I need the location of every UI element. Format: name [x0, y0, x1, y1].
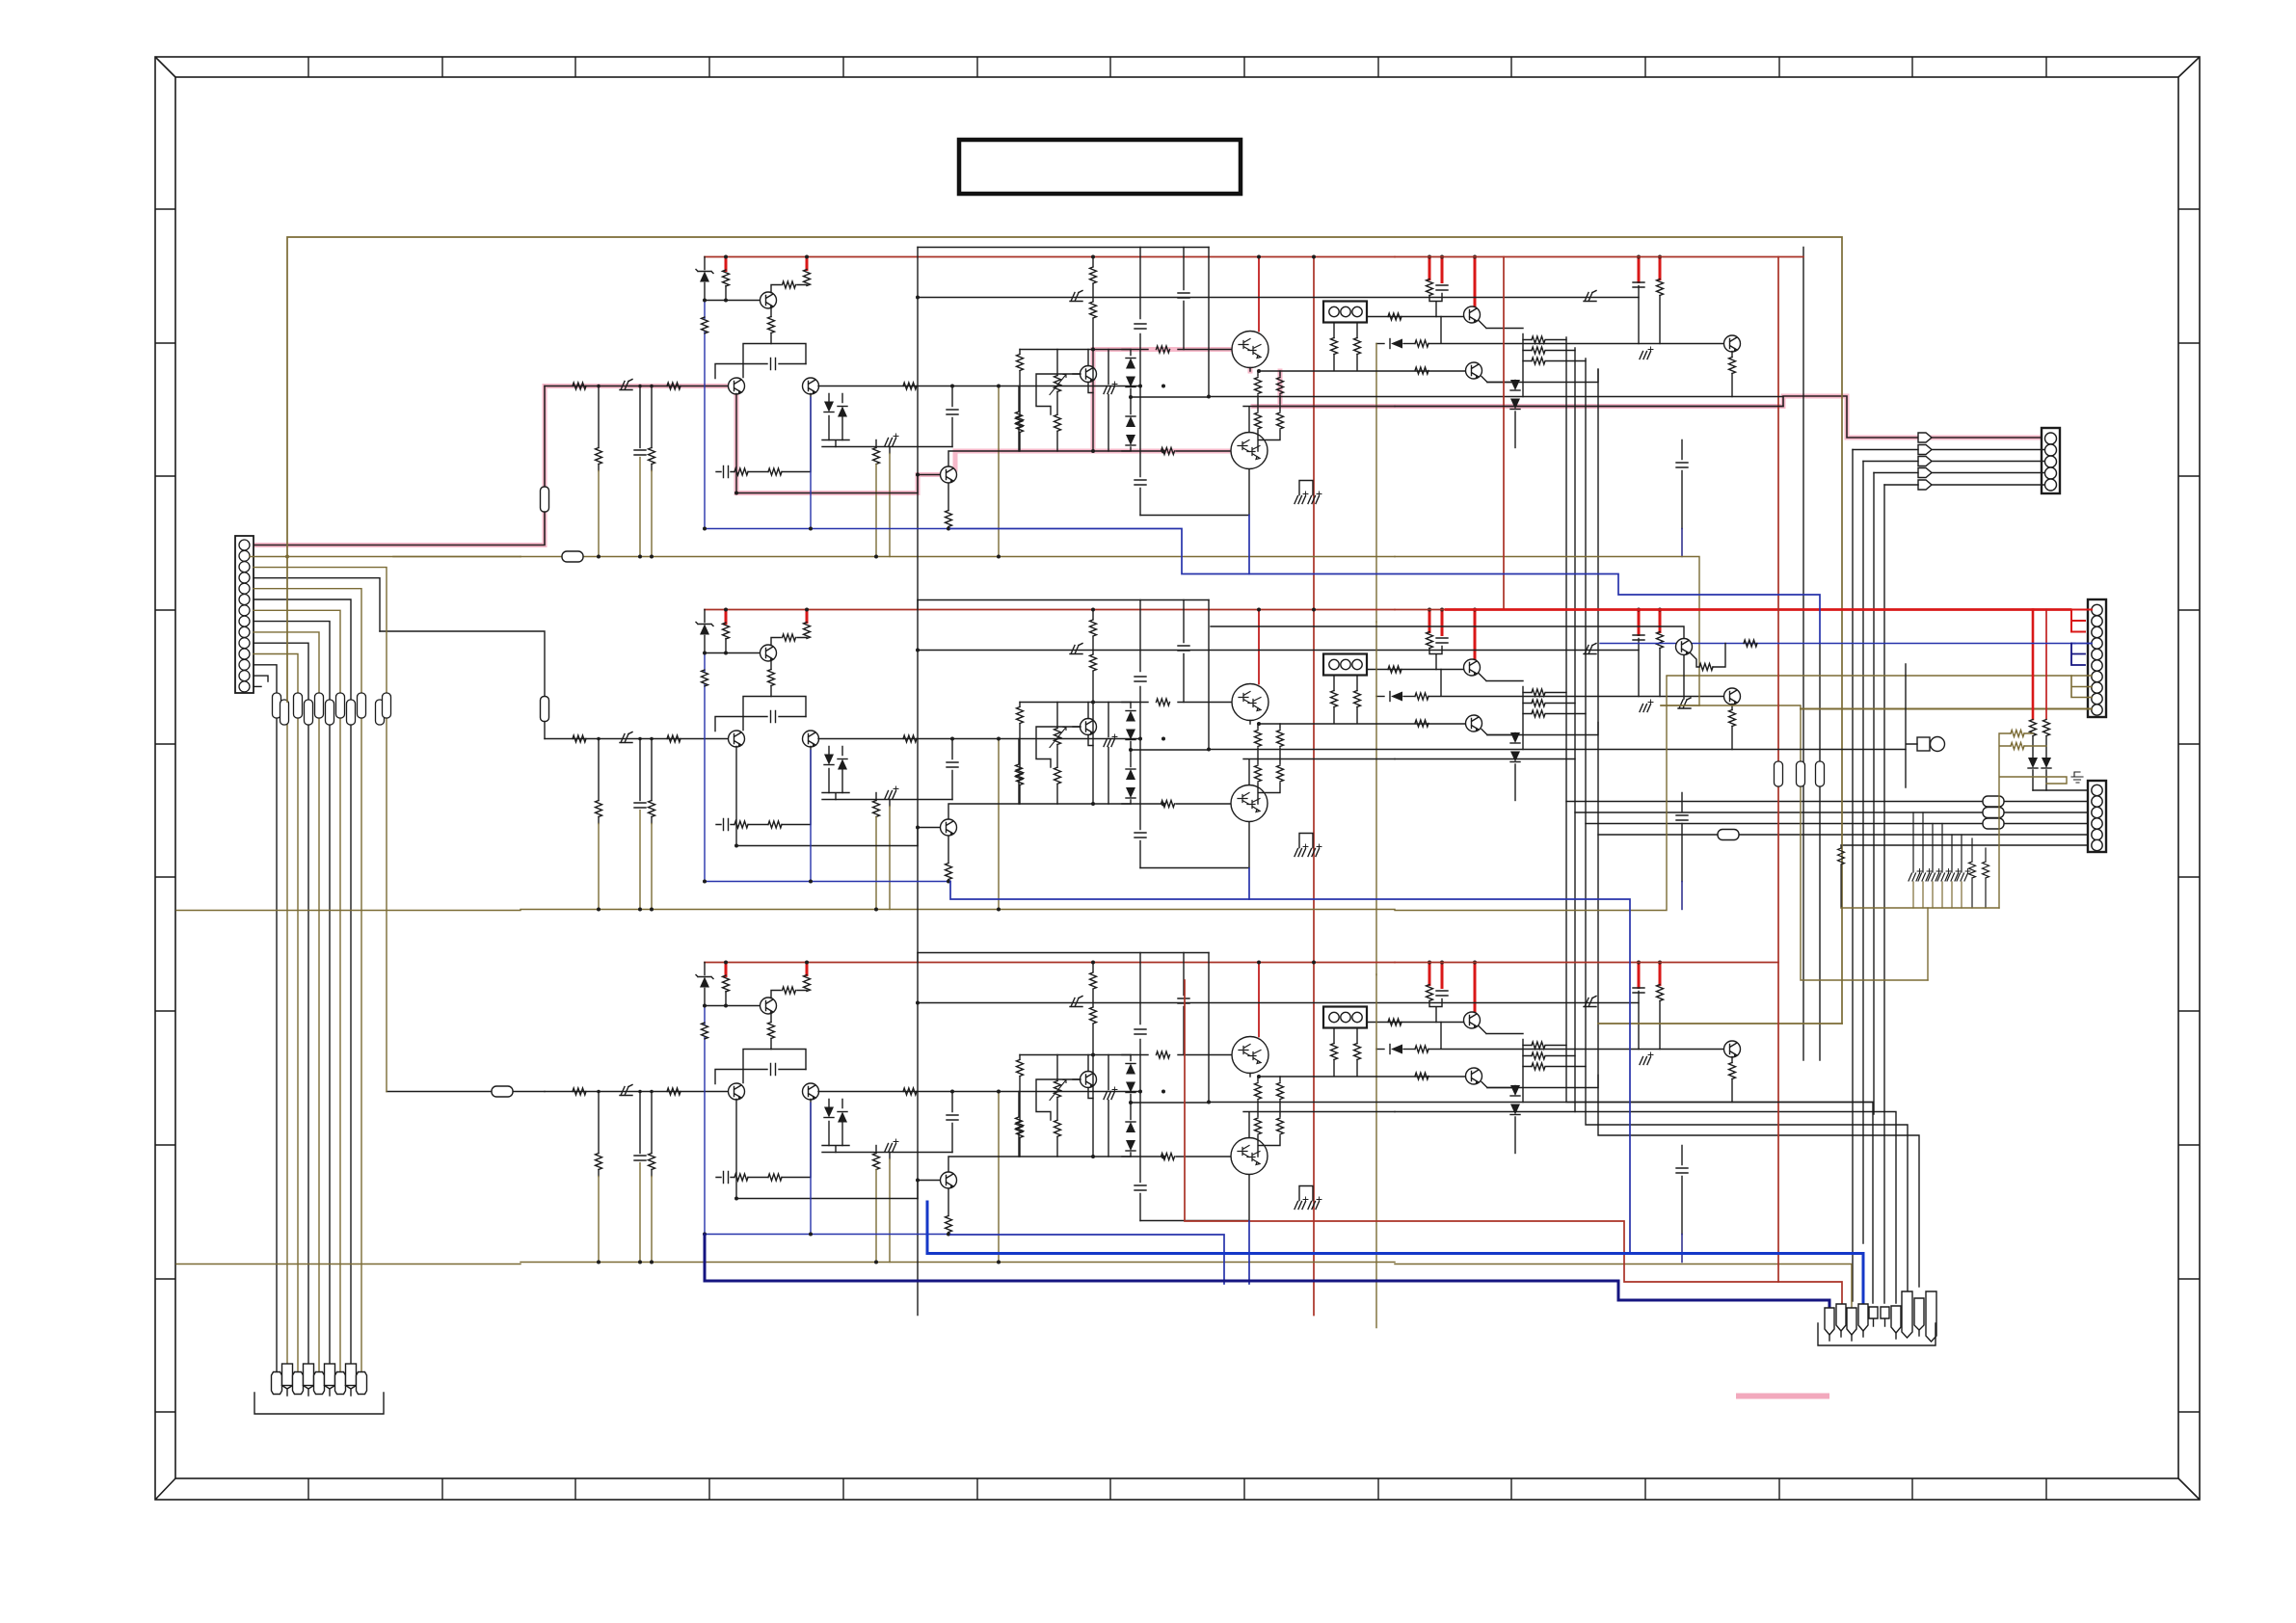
ch3 output node ext [1395, 1111, 1575, 1113]
trim caps row [1913, 812, 1962, 872]
inner border [175, 77, 2178, 1478]
olive link bottom [1598, 1023, 1842, 1024]
wire harness line 10 [254, 643, 308, 1378]
trim glyph tails [1913, 882, 1962, 908]
resistor R35 [2011, 743, 2024, 750]
ch3 output row [1732, 1102, 1873, 1104]
blue protection row [1600, 643, 2075, 645]
right vertical bus V2 [1575, 348, 1896, 1303]
pin lug BR2 [1836, 1304, 1846, 1337]
diode D9 [2028, 758, 2038, 768]
wire harness stub lines [254, 676, 268, 681]
blue ch3 link [950, 1235, 1224, 1284]
wire harness line 11 [254, 654, 298, 1379]
border tick marks [155, 57, 2200, 1500]
corner diagonal top-left [155, 57, 175, 77]
wire harness line 8 [254, 622, 330, 1378]
channel 2 [521, 600, 1741, 975]
red thick stub CN-B b [2045, 610, 2047, 720]
wire Q9 collector [1211, 626, 1684, 638]
olive protection run [1661, 705, 1928, 980]
pin lug BR7 [1891, 1306, 1901, 1339]
trimmer adjust row [1838, 812, 2000, 908]
pin lug bottom-left 8 [346, 1364, 357, 1396]
left fan-out wires [250, 555, 521, 1379]
olive CN-B bottom feed [1801, 708, 2092, 710]
corner diagonal bottom-left [155, 1478, 175, 1500]
blue ch1 T2 drop [1248, 516, 1250, 574]
pin lug bottom-left 6 [325, 1364, 335, 1396]
ch1 output row to jog [1732, 396, 1783, 398]
mid-right rectifier cluster [1906, 664, 2067, 908]
connector CN-B [2088, 599, 2106, 717]
bottom-left pin row [254, 1364, 384, 1414]
long colored wires [176, 237, 2092, 1309]
pin lug bottom-left 5 [314, 1372, 325, 1395]
bead F1 [1775, 761, 1783, 786]
royal blue output run [927, 1202, 1863, 1304]
right side assemblies [1718, 428, 2106, 852]
wire CN-A bus drop 2 [1862, 462, 1864, 1244]
resistor R33 [2043, 720, 2050, 736]
bead F2 [1797, 761, 1805, 786]
pin lug bottom-left 9 [357, 1372, 367, 1395]
resistor R31 on blue row [1744, 640, 1757, 647]
ch1 output node ext [1395, 406, 1783, 408]
lamp PL1 [1917, 737, 1930, 751]
wire CN-A bus drop 3 [1873, 473, 1875, 1115]
wire harness line 7 [254, 610, 340, 1378]
wire harness line 12 [254, 665, 277, 1378]
ch3 ground rail exts [176, 1264, 1852, 1309]
wire CN-C line5 [2033, 789, 2088, 791]
bead ch1 gnd [562, 551, 583, 562]
wire harness line 9 [254, 632, 319, 1378]
long red vertical [1778, 257, 1842, 1305]
red drop to ch2 rail [1503, 257, 1505, 610]
bead CN-C line1 [1983, 796, 2004, 807]
red thick stub CN-B a [2032, 610, 2035, 720]
pin lug bottom-left 4 [304, 1364, 314, 1396]
title box [959, 140, 1241, 194]
left harness connector CN1 [235, 536, 254, 693]
bracket bottom-left [254, 1393, 384, 1414]
resistor R34 [2011, 731, 2024, 737]
olive trimmer-row drop [1927, 908, 1929, 980]
pin lug bottom-left 1 [272, 1372, 282, 1395]
sheet border frame [155, 57, 2200, 1500]
rail ch1 right ext [1395, 256, 1803, 258]
bead F3 [1816, 761, 1825, 786]
blue ch3 T2 drop [1248, 1221, 1250, 1284]
pin lug BR1 [1825, 1308, 1834, 1341]
pin lug BR8 tall [1902, 1291, 1912, 1338]
pink signal path highlight (channel 1) [250, 350, 2047, 545]
bead input ch1 [541, 487, 549, 512]
resistor R32 [2030, 720, 2037, 736]
resistor R36 [1971, 838, 1973, 862]
CN-A pin lugs [1918, 433, 1932, 442]
fuse beads on verticals [1775, 761, 1825, 786]
wire diode feeds [2033, 736, 2046, 758]
pin lug bottom-left 3 [293, 1372, 304, 1395]
wire ch3 input feed [387, 1091, 545, 1093]
pin lug BR5 small [1869, 1307, 1878, 1326]
olive CN-B hooks [2071, 676, 2092, 698]
bead ch3 [492, 1086, 513, 1097]
blue ch2 T2 drop [1248, 868, 1250, 899]
ch2 output row to lamp [1732, 749, 1906, 751]
wire harness olive line [286, 702, 288, 1378]
wire diode tails [2033, 770, 2046, 790]
right vertical bus V1 [1566, 337, 1873, 1303]
wire CN-C feed 4 [1598, 834, 2088, 836]
wire CN-A line5 [1884, 484, 2044, 486]
olive jumper rows [1999, 731, 2067, 909]
wire CN-A bus drop 1 [1852, 450, 1854, 1302]
wire CN-C feed 1 [1566, 801, 2088, 803]
ch2 output node ext [1395, 758, 1575, 760]
olive relay-tap fillers [1375, 622, 1377, 1049]
olive trim ground row [1841, 907, 1999, 909]
bracket bottom-right [1818, 1323, 1936, 1345]
ch1 ground rail right ext [1395, 557, 1699, 706]
red step run ch3 [1185, 980, 1778, 1282]
pin lug BR4 [1858, 1304, 1868, 1337]
MAIN SCHEMATIC [176, 237, 2106, 1414]
blue ch2 link [950, 882, 1630, 1254]
resistor R38 [1840, 845, 1842, 848]
pin lug bottom-left 7 [335, 1372, 346, 1395]
pin lug BR6 small [1881, 1307, 1889, 1326]
wire harness line 3 [254, 568, 387, 1092]
wire input feed ch1 [250, 508, 545, 545]
pin lug BR3 [1847, 1308, 1856, 1341]
wire CN-A line3 [1863, 461, 2044, 463]
wire ch2 input feed [380, 631, 545, 698]
maroon signal path wires (channel 1) [250, 386, 2047, 545]
ch1 ground rail left ext [393, 556, 521, 558]
blue CN-B hooks [2071, 643, 2092, 645]
wire harness line 2 (gnd) [250, 556, 521, 558]
protection circuit cluster [1211, 626, 1757, 708]
corner diagonal top-right [2178, 57, 2200, 77]
right vertical bus V3 [1586, 359, 1908, 1301]
pink marker line [1739, 1394, 1827, 1399]
wire CN-A line2 [1853, 449, 2044, 451]
wire CN-C feed 3 [1586, 823, 2088, 825]
wire harness line 6 [254, 599, 351, 1378]
wire CN-C line6 [1841, 844, 2088, 846]
pin lug BR9 medium [1914, 1298, 1924, 1330]
page wiring black [380, 248, 2088, 1304]
wire Q9 emitter [1683, 655, 1685, 699]
wire box right vertical [1802, 248, 1804, 1061]
wire olive jumpers [1999, 733, 2067, 908]
diode D10 [2042, 758, 2051, 768]
red CN-B hooks [2070, 610, 2092, 632]
connector CN-A [2042, 428, 2060, 493]
wire CN-A line4 [1874, 472, 2044, 474]
wire output run ch1 [1253, 396, 1918, 438]
transistor Q9 [1676, 639, 1693, 655]
channel 3 [521, 953, 1741, 1328]
rail ch3 right ext [1395, 962, 1778, 964]
bead CN-C line3 [1983, 818, 2004, 829]
wire harness line 4 [254, 578, 380, 631]
wire CN-C feed 2 [1575, 811, 2088, 813]
olive CN-B feed [1667, 675, 2092, 677]
pin lug BR10 tall [1926, 1291, 1936, 1342]
outer border [155, 57, 2200, 1500]
wire Q9 gnd tail [1661, 705, 1699, 706]
resistor R30 [1690, 652, 1699, 667]
bead CN-C line2 [1983, 808, 2004, 818]
connector CN-C [2088, 781, 2106, 852]
right vertical bus V4 [1598, 369, 1919, 1287]
resistor R37 [1985, 848, 1987, 862]
bead ch2 [541, 697, 549, 722]
bottom-right pin group [1818, 1291, 1936, 1345]
pin lug bottom-left 2 [282, 1364, 293, 1396]
wire CN-A bus drop 4 [1883, 485, 1885, 1303]
channel 1 [521, 248, 1741, 623]
olive top loop [287, 237, 1842, 1024]
ch2 ground rail exts [176, 677, 1667, 911]
corner diagonal bottom-right [2178, 1478, 2200, 1500]
wire aux vertical a [1819, 644, 1821, 1061]
navy output run [705, 1235, 1829, 1309]
blue ch1 link [950, 529, 1820, 644]
trimmer cap CT3 [1678, 698, 1691, 708]
ground symbol CN-C [2071, 772, 2083, 783]
rail ch2 thick right ext [1395, 609, 1446, 611]
wire harness line 5 [254, 589, 361, 1378]
